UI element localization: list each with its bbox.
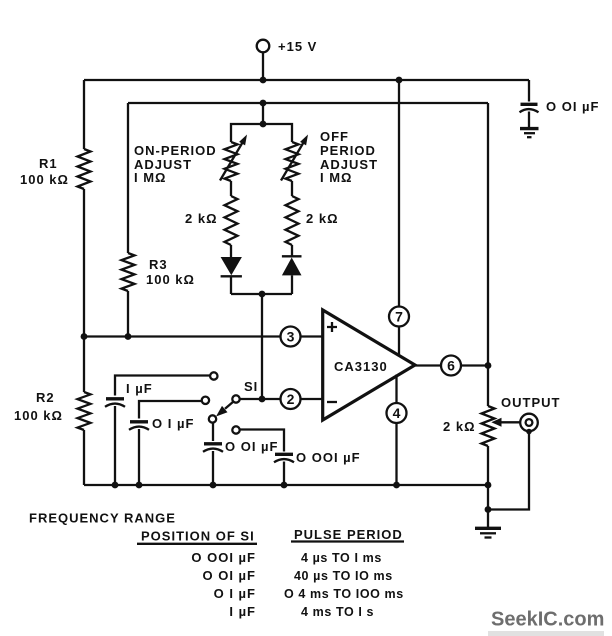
ground symbol main	[475, 528, 501, 537]
pin circle 7	[389, 307, 409, 327]
svg-text:O OI µF: O OI µF	[546, 99, 600, 114]
svg-text:2 kΩ: 2 kΩ	[185, 211, 218, 226]
junction node pot network bottom	[259, 291, 266, 298]
svg-text:I MΩ: I MΩ	[320, 170, 352, 185]
power terminal +15 V	[257, 39, 318, 80]
pin circle 2	[281, 389, 301, 409]
svg-text:O I µF: O I µF	[152, 416, 194, 431]
switch S1 contact for 0.1uF	[202, 397, 209, 404]
switch S1 contact for 0.001uF	[232, 426, 239, 433]
wire pin 4 to ground rail	[395, 375, 397, 486]
switch S1 contact for 1uF	[210, 372, 217, 379]
svg-text:4: 4	[393, 405, 401, 421]
junction node R3 / pin3	[125, 333, 132, 340]
wire ground stem	[487, 485, 489, 527]
svg-text:+15 V: +15 V	[278, 39, 317, 54]
junction node C2/rail	[136, 482, 143, 489]
resistor R2 100k zigzag	[78, 392, 91, 430]
svg-text:O I µF: O I µF	[214, 586, 256, 601]
junction node network / pin2	[259, 396, 266, 403]
resistor R1 100k zigzag	[78, 149, 91, 189]
svg-text:CA3130: CA3130	[334, 359, 388, 374]
svg-text:100 kΩ: 100 kΩ	[20, 172, 69, 187]
resistor 2k left branch	[225, 196, 238, 245]
wire left vertical bus (R1/R2 column)	[83, 80, 85, 485]
junction node return/ground stem	[485, 506, 492, 513]
svg-text:100 kΩ: 100 kΩ	[146, 272, 195, 287]
svg-text:7: 7	[395, 309, 403, 325]
svg-text:SeekIC.com: SeekIC.com	[491, 609, 604, 631]
junction node pin4/rail	[393, 482, 400, 489]
junction node C3/rail	[210, 482, 217, 489]
table row 4	[229, 604, 374, 619]
wire pin 2 line	[240, 398, 323, 400]
svg-text:2: 2	[287, 391, 295, 407]
output terminal	[520, 414, 538, 435]
wire output feedback rail	[128, 102, 488, 104]
junction node C1/rail	[112, 482, 119, 489]
junction node on +15V rail at pin7 branch	[396, 77, 403, 84]
switch S1 wiper arm with arrowhead	[216, 401, 234, 416]
junction node left bus / pin3	[81, 333, 88, 340]
svg-text:R1: R1	[39, 156, 58, 171]
scan artifact band bottom edge	[488, 631, 604, 636]
plus input marker	[327, 322, 337, 332]
potentiometer OFF PERIOD ADJUST 1M (right)	[281, 135, 308, 182]
junction node right bus/rail	[485, 482, 492, 489]
table row 2	[203, 568, 393, 583]
wire right vertical bus (output node)	[487, 103, 489, 485]
minus input marker	[327, 401, 337, 403]
diode D2 right (cathode up, anode down)	[282, 245, 302, 294]
svg-text:2 kΩ: 2 kΩ	[306, 211, 339, 226]
pin circle 3	[281, 327, 301, 347]
svg-text:O OOI µF: O OOI µF	[191, 550, 256, 565]
switch S1 pole	[232, 395, 239, 402]
wire right branch between pot and 2k	[291, 181, 293, 196]
potentiometer 2k output load	[482, 406, 521, 446]
wire pin 3 line from left bus	[84, 335, 323, 337]
svg-text:40 µs TO IO ms: 40 µs TO IO ms	[294, 569, 393, 583]
wire R3 column vertical	[127, 103, 129, 337]
table row 1	[191, 550, 381, 565]
wire left branch between pot and 2k	[230, 181, 232, 196]
svg-text:POSITION OF SI: POSITION OF SI	[141, 529, 255, 544]
svg-text:O OI µF: O OI µF	[203, 568, 257, 583]
potentiometer ON-PERIOD ADJUST 1M (left)	[220, 135, 247, 182]
wire pot network bottom bracket	[231, 293, 292, 295]
ground symbol decoupling	[520, 129, 539, 138]
table row 3	[214, 586, 404, 601]
svg-text:2 kΩ: 2 kΩ	[443, 419, 476, 434]
wire pin 7 from +15V rail	[398, 80, 400, 357]
svg-text:4 ms TO I s: 4 ms TO I s	[301, 605, 374, 619]
wire pot network top bracket	[231, 124, 292, 142]
wire output terminal return	[488, 432, 529, 510]
svg-text:SI: SI	[244, 379, 258, 394]
switch S1 contact for 0.01uF	[209, 415, 216, 422]
resistor 2k right branch	[286, 196, 299, 245]
pin circle 6	[441, 356, 461, 376]
junction node pot network top	[260, 121, 267, 128]
table header POSITION OF S1	[137, 529, 257, 544]
svg-text:OUTPUT: OUTPUT	[501, 395, 560, 410]
resistor R3 100k zigzag	[122, 253, 135, 291]
wire pin 6 output line	[415, 364, 488, 366]
junction node output / right bus	[485, 362, 492, 369]
svg-text:I µF: I µF	[229, 604, 256, 619]
svg-text:R2: R2	[36, 390, 55, 405]
svg-text:6: 6	[447, 358, 455, 374]
wire pot network center drop	[262, 103, 264, 124]
capacitor C3 0.01uF	[203, 423, 223, 486]
svg-text:3: 3	[287, 329, 295, 345]
diode D1 left (anode up, cathode down)	[221, 245, 242, 294]
svg-text:R3: R3	[149, 257, 168, 272]
svg-text:FREQUENCY RANGE: FREQUENCY RANGE	[29, 511, 176, 526]
junction node on +15V rail at supply entry	[260, 77, 267, 84]
svg-text:4 µs TO I ms: 4 µs TO I ms	[301, 551, 382, 565]
svg-text:100 kΩ: 100 kΩ	[14, 408, 63, 423]
svg-text:I µF: I µF	[126, 381, 153, 396]
wire bottom ground rail	[84, 484, 488, 486]
capacitor C1 1uF	[105, 376, 210, 486]
table header PULSE PERIOD	[291, 527, 404, 542]
pin circle 4	[387, 403, 407, 423]
op-amp U1 CA3130 triangle	[323, 310, 415, 420]
capacitor C2 0.1uF	[129, 401, 201, 485]
svg-text:OFF: OFF	[320, 129, 349, 144]
svg-text:I MΩ: I MΩ	[134, 170, 166, 185]
svg-text:O OI µF: O OI µF	[225, 439, 279, 454]
junction node C4/rail	[281, 482, 288, 489]
svg-text:O 4 ms TO IOO ms: O 4 ms TO IOO ms	[284, 587, 404, 601]
svg-text:PERIOD: PERIOD	[320, 143, 376, 158]
wire network bottom to pin 2 node	[261, 294, 263, 399]
svg-text:PULSE PERIOD: PULSE PERIOD	[294, 527, 403, 542]
capacitor C5 0.01uF supply decoupling	[520, 80, 539, 128]
capacitor C4 0.001uF	[240, 430, 294, 486]
wire top +15V rail	[84, 79, 529, 81]
svg-text:ON-PERIOD: ON-PERIOD	[134, 143, 217, 158]
junction node feedback rail to pot network	[260, 100, 267, 107]
svg-text:O OOI µF: O OOI µF	[296, 450, 361, 465]
